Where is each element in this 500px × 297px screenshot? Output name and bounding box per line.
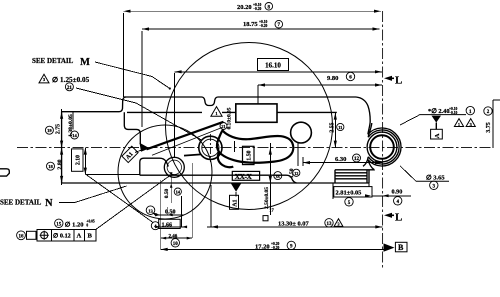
svg-text:1: 1 [458, 122, 460, 127]
svg-text:0.90: 0.90 [392, 189, 403, 196]
svg-text:20.20: 20.20 [237, 4, 252, 11]
svg-text:−0.20: −0.20 [271, 246, 280, 250]
svg-text:2.10: 2.10 [75, 155, 81, 165]
svg-text:14: 14 [72, 133, 77, 138]
svg-text:N: N [45, 198, 53, 209]
svg-text:−0.20: −0.20 [259, 24, 268, 28]
svg-text:*∅ 2.40: *∅ 2.40 [428, 108, 450, 115]
svg-text:17: 17 [269, 208, 274, 213]
svg-text:12: 12 [354, 157, 360, 162]
svg-text:SEE DETAIL: SEE DETAIL [0, 199, 42, 207]
svg-text:6.30: 6.30 [335, 156, 346, 163]
svg-text:A: A [77, 233, 82, 240]
svg-text:21: 21 [221, 124, 225, 129]
svg-text:21: 21 [67, 86, 73, 91]
svg-text:1.50: 1.50 [246, 150, 252, 160]
svg-text:2.46: 2.46 [169, 234, 178, 239]
svg-text:L: L [395, 75, 402, 87]
svg-text:SEE DETAIL: SEE DETAIL [32, 57, 74, 65]
svg-text:∅ 3.65: ∅ 3.65 [426, 174, 445, 182]
svg-text:10: 10 [173, 242, 179, 247]
svg-text:−0.20: −0.20 [253, 7, 262, 11]
svg-text:2.50±0.05: 2.50±0.05 [264, 187, 270, 209]
svg-text:17.20: 17.20 [255, 243, 270, 250]
svg-text:3.75: 3.75 [486, 122, 492, 133]
svg-text:1.66: 1.66 [162, 222, 173, 228]
svg-text:M: M [80, 57, 90, 68]
svg-text:16.10: 16.10 [265, 61, 281, 69]
svg-text:B: B [398, 243, 404, 252]
svg-text:−0.10: −0.10 [449, 111, 458, 115]
svg-text:13: 13 [327, 222, 333, 227]
svg-text:9.80: 9.80 [327, 75, 338, 82]
svg-text:2.80: 2.80 [58, 159, 64, 169]
svg-text:L: L [395, 212, 402, 224]
svg-text:∅ 1.20: ∅ 1.20 [65, 220, 84, 228]
svg-text:0: 0 [86, 224, 88, 228]
svg-text:18.75: 18.75 [243, 21, 258, 28]
svg-text:15: 15 [56, 222, 62, 227]
svg-text:A: A [434, 133, 441, 138]
svg-text:1: 1 [215, 111, 217, 116]
svg-text:2.75: 2.75 [56, 124, 62, 134]
svg-text:18: 18 [48, 164, 53, 169]
svg-text:0.10±0.05: 0.10±0.05 [227, 107, 233, 129]
svg-text:2.81±0.05: 2.81±0.05 [336, 190, 362, 197]
svg-text:16: 16 [19, 234, 25, 239]
svg-text:∅ 0.12: ∅ 0.12 [53, 233, 71, 240]
svg-text:A1: A1 [232, 199, 238, 206]
svg-text:0.50: 0.50 [164, 188, 170, 198]
svg-text:0.50: 0.50 [165, 209, 176, 215]
svg-text:13.30± 0.07: 13.30± 0.07 [278, 221, 309, 228]
svg-text:B: B [88, 233, 93, 240]
svg-text:12: 12 [294, 171, 298, 176]
svg-text:19: 19 [47, 128, 52, 133]
svg-text:∅ 1.25±0.05: ∅ 1.25±0.05 [52, 76, 90, 84]
svg-text:XX-X: XX-X [235, 172, 253, 181]
svg-text:13: 13 [148, 208, 153, 213]
svg-text:11: 11 [338, 125, 342, 130]
svg-text:2.55: 2.55 [329, 122, 335, 132]
